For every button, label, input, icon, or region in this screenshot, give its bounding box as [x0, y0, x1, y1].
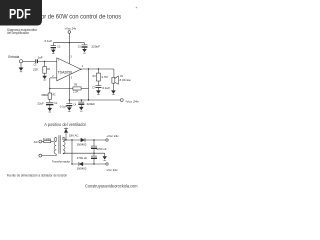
svg-text:220uF: 220uF	[92, 45, 101, 49]
svg-text:PDF: PDF	[9, 7, 31, 22]
svg-text:680Ω: 680Ω	[41, 93, 48, 97]
svg-text:Transformador: Transformador	[52, 159, 70, 163]
svg-text:del amplificador: del amplificador	[7, 31, 30, 35]
svg-text:22K: 22K	[33, 68, 38, 72]
svg-text:18V AC: 18V AC	[69, 134, 78, 138]
svg-text:2.2K: 2.2K	[73, 90, 79, 94]
svg-text:1uF: 1uF	[38, 56, 43, 60]
svg-text:8 Ohmios: 8 Ohmios	[120, 78, 132, 82]
svg-text:4700 uF: 4700 uF	[96, 147, 107, 151]
svg-text:0.1uF: 0.1uF	[60, 105, 67, 109]
svg-text:4.7R: 4.7R	[101, 75, 108, 79]
svg-text:-Vcc 24v: -Vcc 24v	[125, 99, 139, 103]
svg-text:Fuente de alimentación a dobla: Fuente de alimentación a doblador de ten…	[7, 173, 67, 178]
svg-text:0.1uF: 0.1uF	[45, 39, 53, 43]
svg-text:+Vcc 24v: +Vcc 24v	[106, 134, 119, 138]
svg-text:4700 uF: 4700 uF	[77, 156, 88, 160]
svg-text:-Vcc 24v: -Vcc 24v	[106, 168, 118, 172]
svg-text:22uF: 22uF	[37, 102, 44, 106]
svg-text:Entrada: Entrada	[8, 55, 19, 59]
svg-text:TDA2050: TDA2050	[58, 70, 73, 74]
svg-text:+Vcc 24v: +Vcc 24v	[64, 26, 76, 30]
svg-text:Fusible: Fusible	[43, 137, 52, 141]
svg-text:0.1uF: 0.1uF	[102, 86, 110, 90]
svg-text:A positivo del ventilador: A positivo del ventilador	[44, 122, 86, 127]
svg-text:Construyasuvideorockola.com: Construyasuvideorockola.com	[85, 183, 138, 188]
svg-text:220uF: 220uF	[87, 102, 96, 106]
svg-text:1N5403: 1N5403	[77, 142, 87, 146]
svg-text:1N5403: 1N5403	[77, 166, 87, 170]
